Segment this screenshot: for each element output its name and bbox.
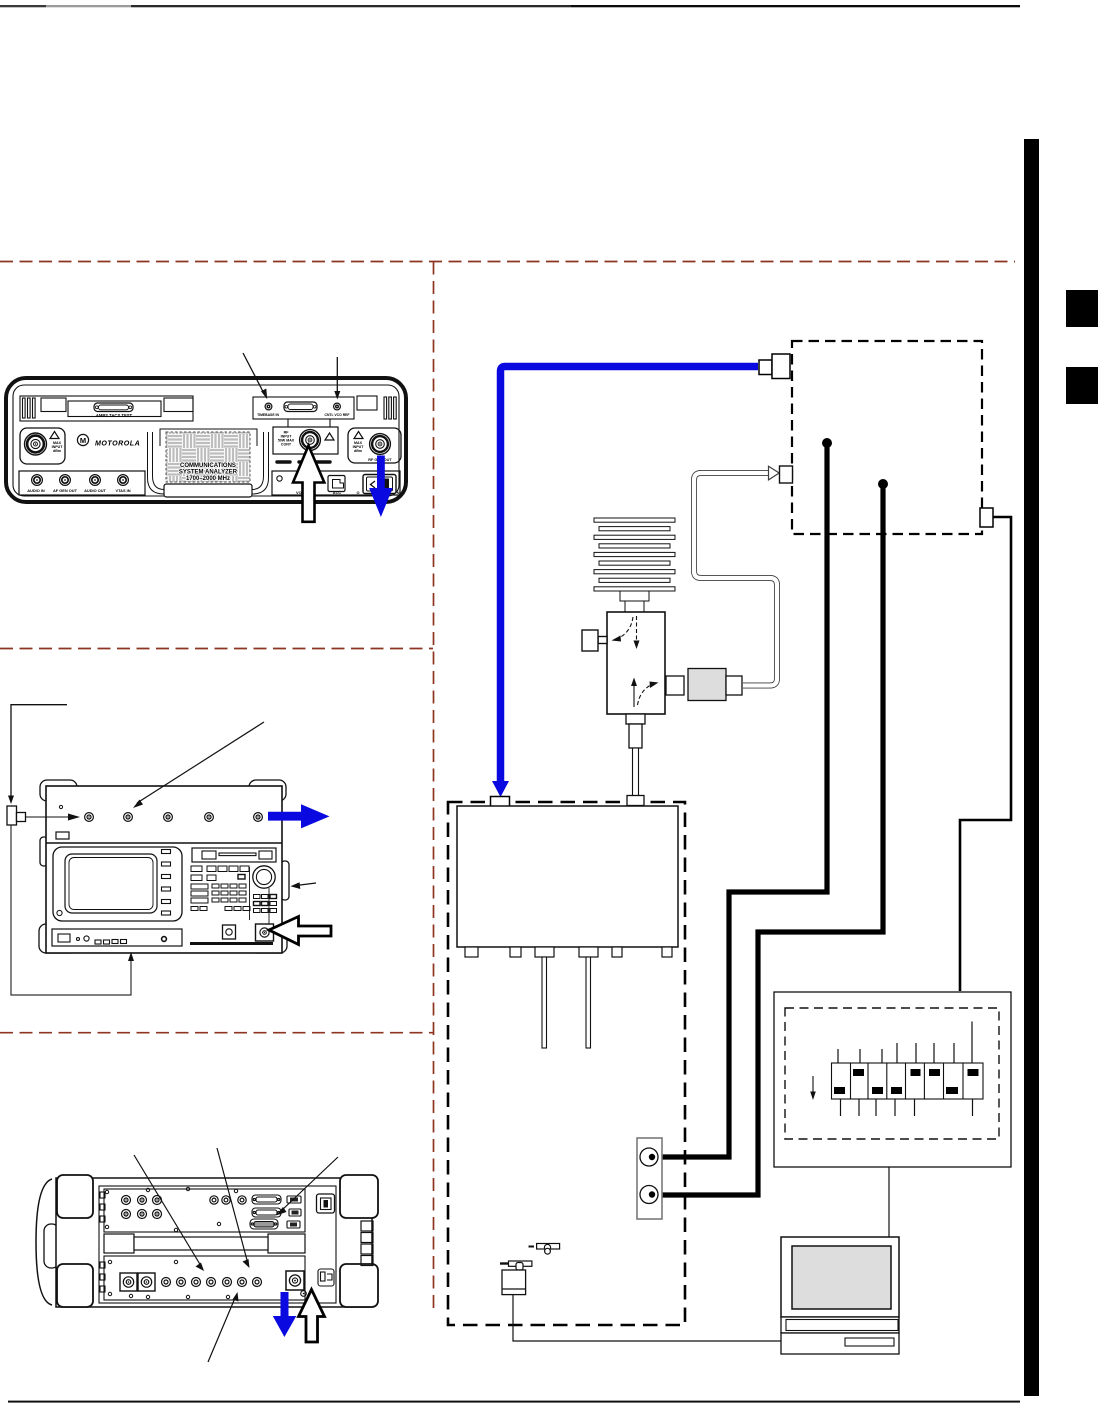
callout arrow to top connector — [26, 814, 81, 821]
headphone jack — [223, 925, 236, 939]
svg-text:COMMUNICATIONS: COMMUNICATIONS — [180, 463, 236, 469]
upper card BNC connectors — [122, 1196, 247, 1219]
RF tray pins — [542, 957, 591, 1048]
white up arrow at TX port — [299, 1290, 325, 1343]
external cable connector symbol — [7, 806, 26, 825]
svg-text:dBm: dBm — [53, 449, 61, 453]
RF tray unit — [457, 806, 678, 947]
breaker feed wires top — [838, 1022, 972, 1064]
analyzer display screen — [164, 432, 252, 497]
Motorola logo — [77, 434, 140, 447]
service monitor CRT — [53, 847, 182, 921]
page header rule — [0, 5, 1020, 7]
service monitor corner bumpers — [39, 780, 289, 953]
memory card drive — [192, 848, 276, 862]
callout arrow to CNTL VCO REF — [334, 357, 340, 400]
keypad — [191, 866, 250, 920]
service monitor chassis — [46, 786, 282, 953]
svg-text:MOTOROLA: MOTOROLA — [95, 439, 140, 447]
circulator bottom stem — [626, 714, 645, 806]
TIMEBASE IN connector — [257, 403, 279, 417]
AMPS TACS TEST connector — [94, 403, 133, 418]
antenna BNC port — [256, 924, 274, 941]
pilot receiver box — [502, 1270, 526, 1295]
dashed section divider vertical — [433, 262, 435, 1310]
base station left end cap — [36, 1179, 59, 1305]
RF tray input connector — [491, 797, 510, 807]
dashed section divider horizontal lower — [0, 1032, 433, 1034]
CNTL VCO REF connector — [284, 402, 350, 417]
front lower trim bar — [190, 942, 273, 945]
diagonal callout arrow to second connector — [133, 722, 264, 808]
white left arrow to antenna port — [269, 917, 331, 945]
RF cabinet dashed enclosure — [448, 802, 685, 1325]
RF tray mounting tabs — [465, 947, 672, 957]
antenna network output connector — [980, 508, 993, 527]
svg-text:1700–2000 MHz: 1700–2000 MHz — [186, 476, 230, 482]
breaker panel to laptop line — [888, 1167, 890, 1237]
lower control strip — [52, 929, 182, 946]
CRT screen mount bracket — [148, 429, 269, 494]
blue down arrow at RF GEN OUT — [369, 456, 393, 518]
power breaker switch — [317, 1194, 335, 1213]
svg-text:ACC: ACC — [333, 490, 342, 495]
side vent squares — [361, 1221, 373, 1266]
pilot RF adapter symbol — [500, 1261, 532, 1270]
blue RF test cable — [501, 367, 759, 784]
analyzer top-right connector panel — [253, 396, 396, 427]
callout line from below — [208, 1292, 239, 1362]
lower card N connectors — [120, 1273, 155, 1291]
audio BNC connector row — [19, 471, 145, 495]
black cable A — [650, 443, 827, 1157]
service monitor top panel connectors — [56, 805, 262, 839]
MAX INPUT dBm module — [20, 428, 65, 464]
serial cable to laptop — [513, 1295, 781, 1341]
RF INPUT 50W MAX CONT port — [273, 427, 338, 454]
callout line to lower card left — [134, 1155, 204, 1271]
panel neutral arrow — [810, 1076, 816, 1100]
TX antenna N connector — [286, 1271, 306, 1296]
svg-text:M: M — [80, 436, 86, 445]
svg-text:CONT: CONT — [281, 443, 292, 447]
RF GEN OUT port — [348, 428, 401, 463]
circulator left port — [582, 630, 607, 651]
index tab square 1 — [1066, 290, 1098, 327]
cable loop to front panel — [11, 825, 134, 995]
svg-text:AUDIO IN: AUDIO IN — [27, 488, 45, 493]
callout line to lower card right — [217, 1148, 250, 1268]
coax tee symbol — [529, 1244, 560, 1255]
AC terminal strip — [637, 1138, 662, 1219]
upper card screws — [105, 1187, 237, 1231]
sidebar bar — [1024, 139, 1039, 1396]
svg-text:AUDIO OUT: AUDIO OUT — [84, 488, 106, 493]
blue right arrow out of top panel — [268, 804, 330, 828]
analyzer top-left connector panel — [20, 396, 193, 421]
svg-text:AF GEN OUT: AF GEN OUT — [53, 488, 78, 493]
svg-text:O: O — [356, 490, 359, 495]
ball end of cable B — [878, 479, 888, 489]
gray jumper cable — [694, 466, 793, 686]
dashed section divider horizontal middle — [0, 648, 433, 650]
attenuator — [666, 669, 742, 701]
callout line to D-sub — [276, 1157, 338, 1216]
svg-text:AMPS TACS TEST: AMPS TACS TEST — [96, 413, 133, 418]
index tab square 2 — [1066, 367, 1098, 404]
callout bracket upper left — [8, 705, 67, 804]
accessory and power panel — [272, 471, 400, 495]
svg-text:CNTL VCO REF: CNTL VCO REF — [325, 413, 350, 417]
svg-text:dBm: dBm — [354, 449, 362, 453]
small callout arrow at knob — [291, 882, 317, 889]
panel dash marks — [277, 460, 330, 463]
callout arrow to TIMEBASE IN — [243, 353, 267, 399]
breaker load wires bottom — [841, 1099, 973, 1116]
svg-text:TIMEBASE IN: TIMEBASE IN — [257, 413, 279, 417]
breaker row — [832, 1063, 984, 1099]
blue cable arrow into RF tray — [492, 781, 509, 797]
svg-text:N: N — [397, 490, 400, 495]
power sense cable C — [960, 517, 1011, 991]
AC power inlet — [318, 1269, 334, 1286]
dashed section divider horizontal top — [0, 261, 1015, 263]
base station card cage frame — [99, 1186, 336, 1303]
circulator body — [607, 612, 665, 714]
svg-text:VTAS IN: VTAS IN — [115, 488, 130, 493]
blue down arrow at TX port — [273, 1292, 297, 1337]
laptop computer — [781, 1237, 899, 1354]
lower card screws — [108, 1260, 229, 1298]
ball end of cable A — [822, 438, 832, 448]
breaker toggles — [834, 1069, 979, 1094]
right key group — [254, 895, 277, 913]
CRT softkeys — [162, 850, 171, 916]
handle bar — [104, 1234, 305, 1253]
svg-text:SYSTEM ANALYZER: SYSTEM ANALYZER — [179, 470, 238, 476]
breaker panel box — [774, 992, 1011, 1167]
base station corner bumpers — [57, 1175, 378, 1307]
antenna network dashed box — [792, 341, 982, 534]
D-sub connector bank — [250, 1195, 301, 1229]
page footer rule — [8, 1401, 1020, 1403]
rotary knob — [253, 866, 275, 924]
circulator flow arrows — [612, 616, 659, 707]
white up arrow at RF INPUT — [293, 446, 324, 522]
dummy load heatsink — [594, 518, 675, 612]
black cable B — [650, 484, 883, 1195]
base station chassis — [56, 1178, 372, 1307]
lower card BNC row — [162, 1278, 262, 1287]
blue cable connector at antenna network — [759, 354, 790, 379]
communications system analyzer chassis — [6, 378, 406, 502]
